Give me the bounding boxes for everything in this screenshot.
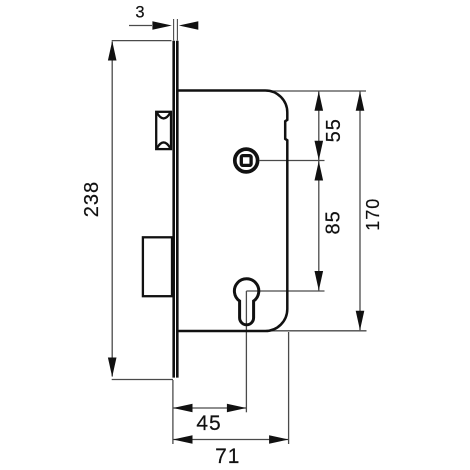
svg-text:170: 170 (363, 198, 383, 231)
svg-text:55: 55 (323, 118, 345, 142)
svg-text:238: 238 (81, 181, 103, 217)
svg-text:85: 85 (323, 210, 345, 234)
svg-text:3: 3 (135, 4, 145, 22)
svg-text:71: 71 (215, 445, 240, 468)
svg-text:45: 45 (196, 412, 221, 435)
